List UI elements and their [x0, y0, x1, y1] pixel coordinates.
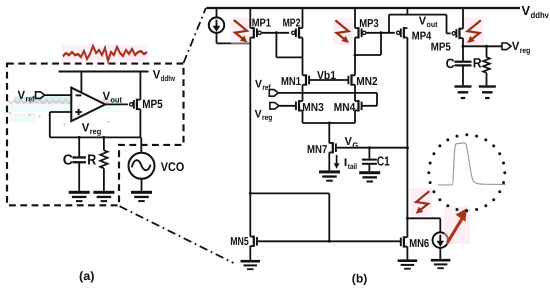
transistor MP5 (b) — [460, 28, 464, 30]
Vref input port (b) — [269, 90, 278, 97]
MP4 drain long wire (VG column) — [406, 38, 408, 219]
transistor MN6 — [404, 236, 408, 238]
svg-text:C: C — [446, 56, 455, 71]
Vout wire (b) — [389, 14, 447, 16]
svg-text:MP5: MP5 — [142, 97, 163, 111]
MN6 drain wire — [406, 218, 408, 237]
ground VCO — [131, 191, 152, 194]
svg-text:MN3: MN3 — [302, 102, 324, 114]
transistor MP2 — [299, 27, 303, 29]
svg-text:V: V — [419, 15, 427, 27]
red injection arrow — [444, 206, 470, 244]
node MN6 drain — [406, 217, 409, 220]
svg-text:out: out — [427, 20, 438, 29]
svg-text:MP5: MP5 — [431, 42, 452, 54]
MP3 diode wire — [355, 54, 381, 56]
wire to MN7 drain — [328, 123, 330, 143]
transistor MN7 — [329, 142, 333, 144]
plus input mark — [75, 111, 81, 113]
svg-text:Vb1: Vb1 — [317, 70, 337, 82]
svg-text:(a): (a) — [79, 269, 95, 283]
lightning bolt at MP3 — [333, 18, 353, 45]
MP2 drain wire — [302, 38, 304, 76]
svg-text:ddhv: ddhv — [531, 10, 550, 20]
ground MN7 — [319, 170, 340, 173]
capacitor C1 — [368, 148, 370, 159]
MP3 drain wire — [354, 38, 356, 76]
Vreg wire to MN3 gate — [279, 105, 296, 107]
op-amp U1 — [71, 88, 105, 122]
MP1 drain long wire down to MN5 — [249, 38, 251, 237]
wire Vref to op-amp — [45, 94, 72, 96]
Vref input port (a) — [36, 92, 45, 99]
regulator dashed box (a) — [7, 64, 184, 206]
MP2 source wire — [302, 8, 304, 28]
resistor R (b) — [486, 46, 488, 57]
ground MN6 — [398, 259, 418, 262]
transistor MP5 (a) — [137, 99, 141, 101]
transistor MP4 — [404, 27, 408, 29]
svg-text:MP3: MP3 — [359, 18, 379, 30]
transistor MN4 — [355, 100, 359, 102]
node MP3 drain — [354, 54, 357, 57]
transistor MN3 — [299, 100, 303, 102]
MP3-MP4 gate wire — [366, 32, 395, 34]
svg-text:C: C — [63, 152, 74, 168]
transistor MN2 — [352, 74, 356, 76]
svg-text:(b): (b) — [352, 271, 368, 285]
MP4 source stub to rail — [406, 8, 408, 15]
capacitor C (b) — [462, 46, 464, 60]
MP3 source wire — [354, 8, 356, 28]
svg-text:G: G — [352, 141, 358, 150]
MN4 source wire — [354, 111, 356, 124]
VCO oscillator — [129, 153, 155, 179]
node VG column — [406, 146, 409, 149]
wire op-amp out to MP5 gate — [105, 103, 128, 105]
MN5 diode wire horizontal — [250, 192, 329, 194]
node MP1/MP2 gates — [275, 31, 278, 34]
svg-text:reg: reg — [90, 127, 102, 136]
dotted circle (waveform zoom) — [427, 133, 506, 212]
svg-text:reg: reg — [262, 113, 272, 122]
svg-text:MP2: MP2 — [283, 18, 301, 30]
substrate injection current source — [433, 232, 448, 247]
minus input mark — [76, 94, 82, 96]
diode wire down — [275, 33, 277, 58]
MN1 source wire — [302, 85, 304, 101]
Vb1 gate wire — [309, 79, 348, 81]
transistor MP1 — [250, 27, 254, 29]
diode wire to MP2 drain — [276, 56, 302, 58]
svg-text:MP1: MP1 — [252, 18, 272, 30]
Vout wire down to MP5 gate — [446, 15, 448, 34]
svg-text:reg: reg — [520, 46, 531, 55]
svg-text:ddhv: ddhv — [161, 74, 176, 83]
pulse waveform — [438, 143, 506, 185]
tail join wire — [303, 122, 356, 124]
svg-text:MN4: MN4 — [334, 102, 356, 114]
lightning bolt at MN6 — [411, 188, 432, 216]
svg-text:MN7: MN7 — [307, 144, 327, 156]
svg-text:ref: ref — [26, 94, 35, 103]
ground MN5 — [241, 260, 260, 263]
transistor MN1 — [303, 74, 307, 76]
svg-text:V: V — [512, 39, 520, 53]
MP5 source wire — [139, 72, 141, 100]
ground C (a) — [69, 191, 90, 194]
bias current source Ib — [216, 8, 218, 17]
node C tap — [78, 136, 81, 139]
VG gate wire — [336, 147, 408, 149]
MP1 source wire — [249, 8, 251, 28]
svg-text:R: R — [87, 152, 96, 168]
Vreg input port (b) — [270, 103, 279, 110]
capacitor C (a) — [78, 137, 80, 156]
MN3 source wire — [302, 111, 304, 124]
wire Vreg to VCO — [140, 137, 142, 153]
ground C (b) — [455, 85, 472, 87]
MN6 source wire — [406, 247, 408, 260]
MN7 source wire — [328, 152, 330, 170]
ground R (b) — [479, 85, 496, 87]
Vref wire down to MN4 gate — [376, 93, 378, 106]
ground R (a) — [93, 191, 114, 194]
ground C1 — [359, 171, 380, 174]
Vreg output port — [502, 43, 511, 50]
MP5b source wire — [462, 8, 464, 29]
Vddhv rail (a) — [59, 70, 149, 72]
Vddhv rail (b) — [206, 7, 520, 9]
wire Ib to MP1 drain — [217, 42, 251, 44]
wire to plus input — [50, 111, 72, 113]
node R tap — [102, 136, 105, 139]
svg-text:MN6: MN6 — [409, 238, 429, 250]
svg-text:V: V — [82, 121, 90, 135]
svg-text:V: V — [522, 3, 531, 18]
svg-text:V: V — [153, 68, 161, 82]
MN5 source wire — [249, 246, 251, 260]
transistor MN5 — [250, 236, 254, 238]
MP1-MP2 gate wire — [262, 32, 290, 34]
svg-text:V: V — [18, 88, 26, 102]
svg-text:MN2: MN2 — [356, 76, 378, 88]
transistor MP3 — [355, 27, 359, 29]
VCO ground wire — [141, 179, 143, 191]
MN5-MN6 gate wire — [257, 240, 401, 242]
svg-text:C1: C1 — [377, 153, 390, 168]
feedback wire vertical — [49, 112, 51, 137]
MN2 source wire — [354, 85, 356, 101]
MN5 diode wire vertical — [328, 193, 330, 241]
svg-text:MN5: MN5 — [230, 236, 249, 248]
MP5 drain wire — [139, 109, 141, 137]
op-amp supply wire — [80, 72, 82, 94]
MN5 diode junction — [249, 192, 252, 195]
ESD noise scribble — [62, 45, 147, 61]
svg-text:out: out — [111, 96, 123, 105]
svg-text:V: V — [345, 136, 353, 148]
Vreg output node wire — [463, 45, 502, 47]
ground Isub — [431, 259, 451, 262]
svg-text:MP4: MP4 — [412, 31, 432, 43]
callout line bottom (dash-dot) — [120, 206, 234, 263]
node VG / C1 — [368, 146, 371, 149]
node MP3/MP4 gates — [380, 31, 383, 34]
wire to substrate current source — [407, 217, 440, 219]
svg-text:VCO: VCO — [161, 160, 185, 174]
svg-text:tail: tail — [348, 162, 357, 171]
lightning bolt at MP1 — [231, 17, 251, 44]
callout line top (dash-dot) — [184, 8, 206, 63]
svg-text:R: R — [473, 56, 482, 71]
Itail arrow — [336, 155, 338, 165]
svg-text:MN1: MN1 — [281, 76, 301, 88]
resistor R (a) — [103, 137, 105, 150]
MP5b drain wire — [462, 38, 464, 46]
Vreg feedback wire — [50, 136, 141, 138]
lightning bolt at MP5 drain — [464, 18, 484, 46]
svg-text:V: V — [103, 89, 111, 103]
Vref wire — [279, 92, 377, 94]
